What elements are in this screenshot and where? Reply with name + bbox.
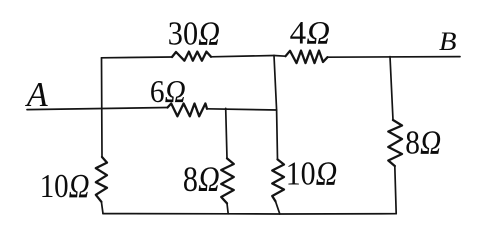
- wire top rail right (4-ohm to B terminal): [328, 56, 461, 59]
- svg-text:30Ω: 30Ω: [168, 15, 220, 52]
- svg-text:6Ω: 6Ω: [150, 74, 186, 109]
- resistor R1 30ohm zigzag: [172, 52, 211, 61]
- wire bottom rail: [103, 213, 396, 215]
- resistor R7 8ohm (right) zigzag: [388, 120, 402, 166]
- wire mid-left leg upper: [226, 108, 227, 158]
- svg-text:8Ω: 8Ω: [183, 159, 220, 199]
- wire node A lead: [27, 108, 168, 110]
- wire top rail left (corner to 30-ohm): [102, 56, 173, 59]
- svg-text:10Ω: 10Ω: [40, 168, 90, 205]
- wire left leg lower: [101, 202, 103, 214]
- svg-text:10Ω: 10Ω: [286, 155, 338, 193]
- wire mid vertical lower: [276, 201, 280, 214]
- wire left leg upper: [101, 58, 104, 157]
- wire right leg lower: [395, 166, 396, 214]
- resistor R4 6ohm zigzag: [168, 104, 208, 117]
- resistor R2 4ohm zigzag: [286, 51, 328, 64]
- svg-text:8Ω: 8Ω: [405, 125, 441, 162]
- resistor R6 10ohm (middle) zigzag: [272, 159, 284, 201]
- wire mid-left leg lower: [227, 203, 228, 214]
- svg-text:A: A: [25, 75, 48, 114]
- wire top rail mid (30-ohm to junction): [211, 56, 274, 57]
- wire mid vertical upper: [274, 56, 278, 160]
- wire A to junction: [207, 109, 277, 110]
- svg-text:B: B: [439, 27, 457, 56]
- resistor R3 10ohm (left) zigzag: [96, 157, 107, 202]
- resistor R5 8ohm (middle) zigzag: [221, 158, 234, 203]
- wire right leg upper: [390, 57, 393, 120]
- svg-text:4Ω: 4Ω: [290, 16, 330, 52]
- wire top rail (junction to 4-ohm): [274, 55, 286, 58]
